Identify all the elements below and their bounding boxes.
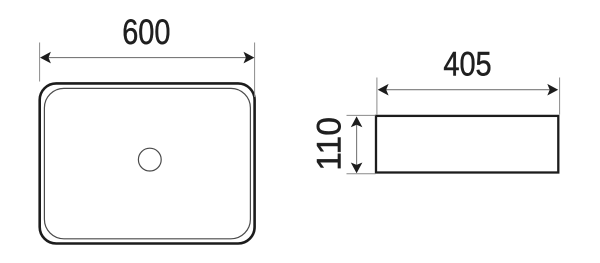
dimension line 405 xyxy=(379,89,557,91)
arrow right (600) xyxy=(244,52,255,64)
dimension line 600 xyxy=(42,57,252,59)
svg-text:110: 110 xyxy=(310,117,348,171)
extension line right (405) xyxy=(559,78,561,115)
basin top view inner rim xyxy=(44,88,250,238)
arrow right (405) xyxy=(547,84,558,96)
basin top view outer rim xyxy=(40,83,255,243)
extension line left (405) xyxy=(376,78,378,116)
svg-text:405: 405 xyxy=(443,46,491,84)
extension line top (110) xyxy=(347,114,376,116)
extension line left (600) xyxy=(39,43,41,82)
side view body xyxy=(376,116,558,173)
extension line right (600) xyxy=(254,43,256,98)
arrow left (600) xyxy=(40,52,51,64)
arrow down (110) xyxy=(351,163,363,174)
drain hole xyxy=(138,148,161,171)
extension line bottom (110) xyxy=(347,173,376,175)
dimension line 110 xyxy=(356,118,358,172)
svg-text:600: 600 xyxy=(122,12,170,52)
arrow left (405) xyxy=(378,84,389,96)
arrow up (110) xyxy=(351,116,363,127)
